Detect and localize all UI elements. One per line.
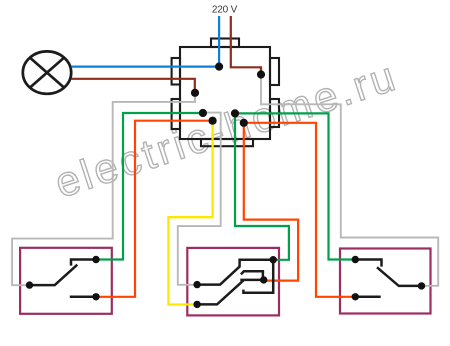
SA2 terminal green: [270, 256, 277, 263]
switch SA2 internals: [197, 260, 273, 305]
SA3 lever (common pole): [377, 267, 422, 286]
junction node brown-left: [191, 89, 199, 97]
wire blue phase 220V to lamp: [71, 16, 219, 67]
SA1 terminal orange: [92, 293, 99, 300]
SA3 terminal green: [352, 256, 359, 263]
wire brown supply 220V: [231, 16, 261, 75]
SA2 terminal pole1: [193, 281, 200, 288]
svg-text:electric-home.ru: electric-home.ru: [49, 52, 403, 207]
wire orange SA1 to junction: [96, 121, 213, 297]
SA1 terminal green: [92, 256, 99, 263]
lamp EL1: [23, 51, 71, 93]
wire yellow junction to SA2 pole2: [168, 121, 212, 305]
junction node green-left: [199, 109, 207, 117]
junction node brown-right: [257, 70, 265, 78]
wire gray A junction to SA1 common: [12, 93, 195, 285]
wire gray B junction to SA2 pole1: [178, 113, 221, 285]
wire green junction to SA2: [235, 113, 289, 259]
switch box SA2 (middle): [187, 248, 279, 316]
wire green junction to SA3: [235, 113, 355, 259]
SA2 contact line to terminal: [240, 279, 263, 282]
svg-text:220 V: 220 V: [212, 5, 238, 16]
junction box: [172, 39, 279, 147]
SA2 inner contact bracket: [241, 271, 263, 277]
switch box SA3 (right): [340, 249, 431, 314]
wire orange junction to SA2: [244, 123, 298, 281]
junction node center: [231, 109, 239, 117]
switch SA3 internals: [355, 260, 421, 297]
wire orange junction to SA3: [244, 123, 355, 297]
SA1 upper contact: [71, 260, 96, 266]
SA2 lever 1 and outer contact loop: [197, 260, 273, 293]
SA3 lower contact: [355, 296, 380, 299]
junction node orange-left: [209, 117, 217, 125]
SA3 terminal orange: [352, 293, 359, 300]
junction node orange-right: [240, 119, 248, 127]
wire brown lamp return: [71, 79, 195, 93]
SA1 lever (common pole): [30, 265, 78, 285]
SA3 terminal common: [418, 282, 425, 289]
SA2 terminal orange: [260, 276, 267, 283]
SA2 terminal pole2: [193, 301, 200, 308]
SA1 terminal common: [26, 281, 33, 288]
SA2 lever 2: [197, 280, 243, 304]
SA3 upper contact: [355, 260, 381, 267]
wire gray C junction to SA3 common: [261, 75, 438, 286]
switch box SA1 (left): [20, 248, 112, 314]
SA1 lower contact: [70, 296, 96, 299]
junction node blue: [215, 63, 223, 71]
switch SA1 internals: [30, 260, 97, 297]
wire green SA1 to junction: [96, 113, 203, 260]
